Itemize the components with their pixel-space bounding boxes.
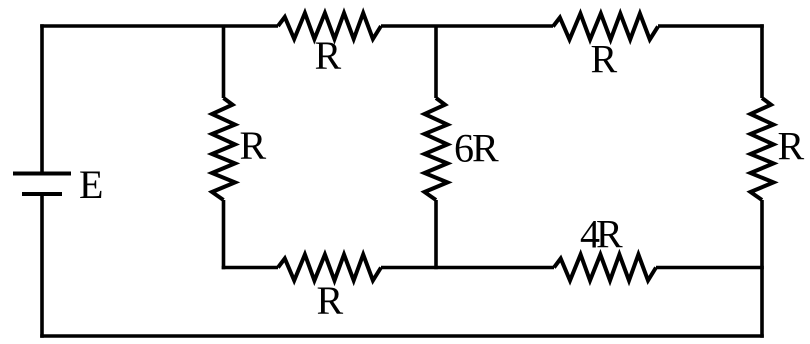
wire: top lead of resistor 6R: [434, 26, 438, 98]
wire: middle bus segment from resistor R to resistor 4R: [381, 266, 554, 270]
svg-text:R: R: [240, 123, 267, 168]
wire: battery negative lead (left vertical, bottom): [40, 194, 44, 338]
svg-text:E: E: [79, 162, 103, 207]
wire: bottom bus from battery to right vertical: [40, 334, 764, 338]
wire: right vertical, top lead of resistor R (right): [760, 24, 764, 98]
wire: top bus segment from battery to resistor R (top-left): [40, 24, 278, 28]
wire: top bus segment between node A and resistor R (top-right): [381, 24, 553, 28]
wire: top bus segment to right vertical: [658, 24, 764, 28]
wire: middle bus segment from left branch to resistor R (middle): [222, 266, 278, 270]
resistor R (top-left) zigzag: [278, 13, 381, 39]
resistor 4R zigzag: [554, 255, 656, 281]
wire: bottom lead of vertical resistor R down to middle bus: [222, 200, 226, 269]
svg-text:6R: 6R: [454, 126, 499, 171]
svg-text:R: R: [315, 33, 342, 78]
resistor R (right vertical) zigzag: [751, 98, 774, 200]
wire: right vertical from resistor R down to bottom bus: [760, 200, 764, 338]
wire: bottom lead of resistor 6R down to middle bus: [434, 200, 438, 269]
resistor R (middle horizontal) zigzag: [278, 255, 381, 281]
svg-text:R: R: [317, 278, 344, 323]
resistor R (left vertical) zigzag: [212, 98, 235, 200]
wire: battery positive lead (left vertical, top): [40, 24, 44, 173]
svg-text:4R: 4R: [580, 212, 623, 257]
resistor R (top-right) zigzag: [553, 14, 658, 40]
svg-text:R: R: [778, 124, 805, 169]
battery E: short negative plate: [22, 192, 62, 196]
svg-text:R: R: [591, 37, 618, 82]
resistor 6R (middle vertical) zigzag: [425, 98, 448, 200]
wire: middle bus segment from resistor 4R to right vertical: [656, 266, 764, 270]
battery E: long positive plate: [13, 172, 71, 176]
wire: top lead of vertical resistor R (left branch): [222, 26, 226, 98]
